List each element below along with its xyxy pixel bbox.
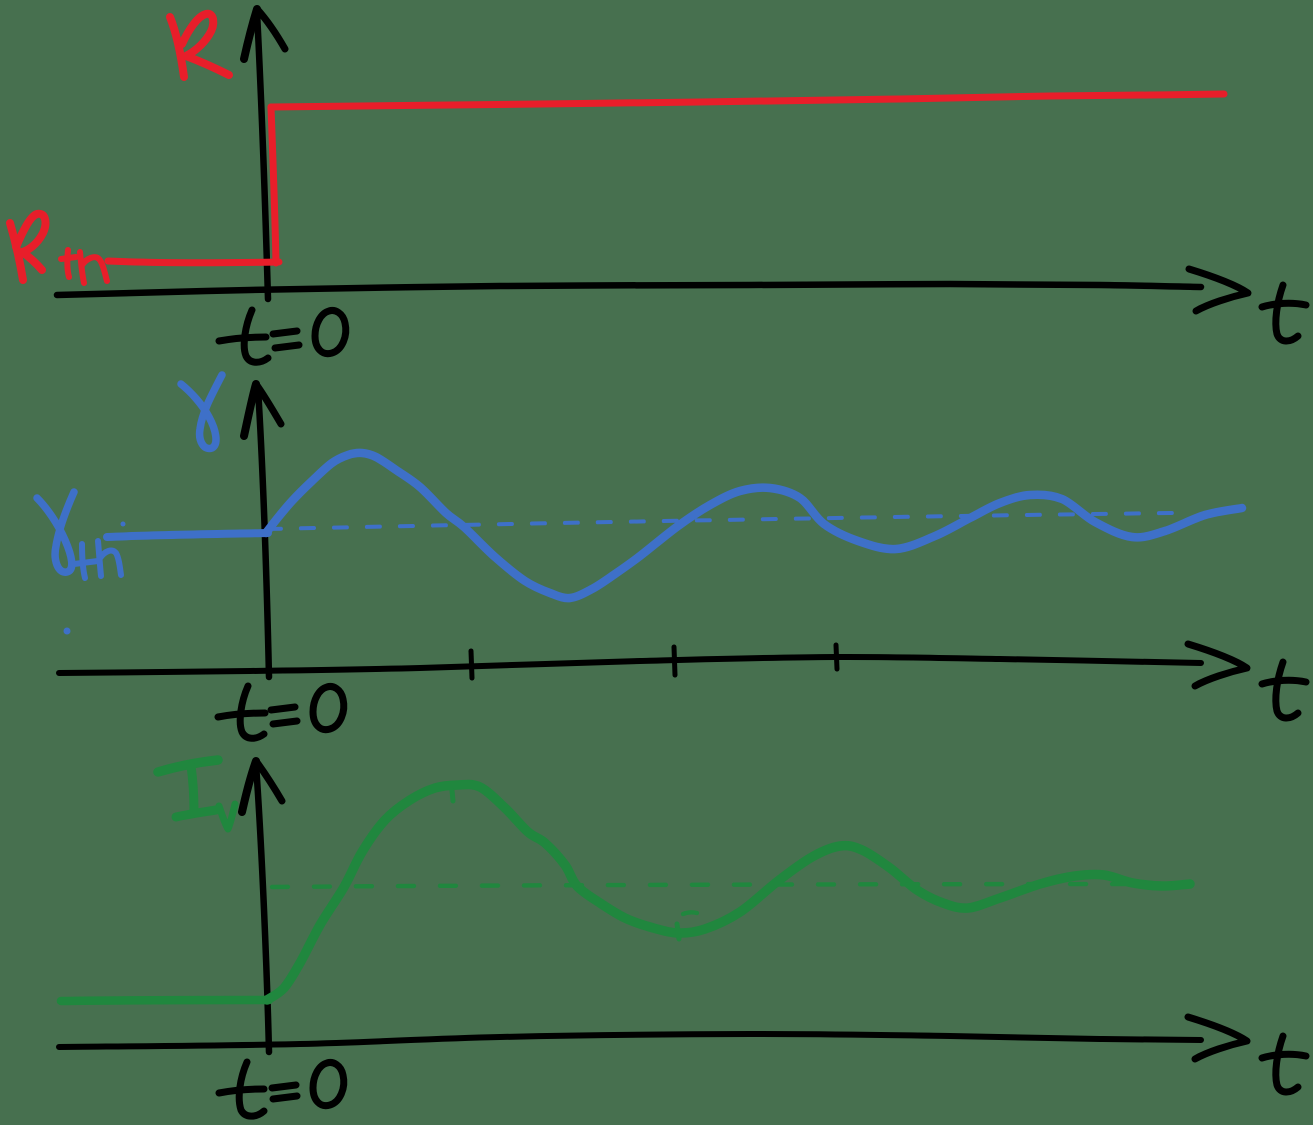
R step: high level line <box>271 94 1224 107</box>
Iv flat level line (green) <box>61 1000 269 1001</box>
tick 3 (middle axis) <box>836 645 837 669</box>
y-axis R (vertical line) <box>257 12 268 299</box>
t label (bottom plot) <box>1276 1036 1298 1092</box>
t label (top plot) <box>1276 285 1298 341</box>
R step: vertical jump at t=0 <box>271 107 276 263</box>
y-axis arrowhead right barb <box>257 9 285 49</box>
x-axis (middle plot) <box>59 657 1201 673</box>
Rth label (red) : R <box>10 223 23 280</box>
y-axis arrowhead left barb <box>242 761 256 812</box>
x-axis (bottom plot) <box>59 1034 1201 1047</box>
stray green dash near trough <box>683 912 697 914</box>
Iv curve (green damped oscillation) <box>267 784 1190 1000</box>
t=0 label (middle plot) : = <box>271 707 295 710</box>
t=0 label (bottom plot) : t <box>239 1062 264 1116</box>
y-axis arrowhead right barb <box>256 384 281 424</box>
x-axis t (top plot) <box>57 284 1201 295</box>
gamma label (blue) <box>181 375 222 449</box>
t=0 label (middle plot) : t <box>240 686 264 738</box>
t=0 label (middle plot) : 0 <box>313 687 344 730</box>
R label (red) <box>170 17 184 77</box>
Iv label (green) : I <box>158 760 218 772</box>
t=0 label (bottom plot) : = <box>272 1085 296 1088</box>
trough tick (green) <box>677 924 679 939</box>
t=0 label (top plot) : = <box>273 331 297 334</box>
Iv label (green) : v subscript <box>219 804 235 829</box>
peak notch tick (green) <box>452 790 453 801</box>
t=0 label (bottom plot) : 0 <box>313 1063 344 1106</box>
y-axis arrowhead right barb <box>256 761 282 801</box>
gamma curve (blue damped oscillation) <box>266 453 1242 598</box>
gamma_th label (blue) : h <box>98 541 121 576</box>
stray blue dot <box>64 628 71 635</box>
tick 1 (middle axis) <box>471 651 472 678</box>
y-axis (vertical line) <box>256 764 269 1052</box>
gamma flat level line (blue) <box>107 533 268 537</box>
Iv dotted line (green) <box>272 884 1175 887</box>
y-axis arrowhead left barb <box>244 384 256 436</box>
t=0 label (top plot) : t <box>244 310 268 362</box>
x-axis arrowhead (bottom plot) <box>1188 1017 1247 1059</box>
R step: low level line <box>108 261 279 263</box>
y-axis arrowhead left barb <box>244 9 257 59</box>
tick 2 (middle axis) <box>674 647 675 675</box>
t=0 label (top plot) : 0 <box>315 311 346 354</box>
gamma_th dotted line (blue) <box>268 513 1173 529</box>
gamma_th label (blue) : gamma <box>37 492 74 572</box>
x-axis arrowhead (middle plot) <box>1188 644 1247 686</box>
t label (middle plot) <box>1276 662 1298 718</box>
gamma_th label (blue) : t <box>82 544 85 578</box>
x-axis arrowhead (top plot) <box>1189 269 1248 311</box>
y-axis (vertical line) <box>258 388 269 677</box>
lone dot left of axis on dotted level <box>121 522 126 527</box>
Rth label (red) : t <box>67 250 69 277</box>
Rth label (red) : h <box>80 252 107 283</box>
